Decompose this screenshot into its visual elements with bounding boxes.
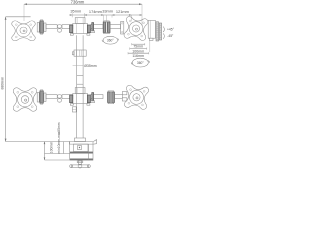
row1 left VESA plate	[12, 21, 36, 41]
svg-text:+45°: +45°	[167, 27, 175, 31]
svg-text:116mm: 116mm	[132, 54, 144, 58]
svg-text:736mm: 736mm	[71, 0, 85, 5]
dimension 75mm bracket	[132, 43, 145, 49]
desk clamp top plate	[69, 140, 96, 145]
row1 elbow joint block	[103, 21, 110, 34]
tilt angle arc down	[163, 33, 164, 38]
row1 tilt bracket upper bolt	[121, 23, 123, 25]
desk clamp lower jaw pad	[70, 159, 93, 161]
pole diameter label	[73, 64, 97, 68]
row1 arm assembly	[37, 18, 103, 36]
pole collar	[72, 50, 86, 56]
desk thickness dimension	[45, 122, 71, 153]
row2 tilt hinge tab lower	[122, 98, 127, 101]
svg-text:min10mm-max85mm: min10mm-max85mm	[57, 122, 61, 153]
svg-text:121mm: 121mm	[116, 9, 129, 14]
svg-text:360°: 360°	[137, 61, 145, 65]
pole base flange	[75, 138, 86, 142]
row2 elbow joint block	[108, 91, 115, 104]
VESA side profile hatched bar inner	[159, 23, 161, 40]
desk clamp c-bracket verticals	[70, 142, 93, 161]
overall height dimension 880mm	[0, 17, 69, 142]
desk clamp body	[74, 144, 89, 151]
row2 right rotated VESA plate	[124, 85, 149, 110]
row1 right rotated VESA plate	[124, 16, 149, 41]
desk clamp upper jaw pad	[70, 152, 93, 154]
extension line right head	[141, 4, 143, 26]
dimension 100mm bracket	[130, 47, 147, 53]
row2 tilt hinge tab upper	[122, 92, 127, 95]
extension line left VESA center	[23, 4, 25, 21]
row1 outer tube	[110, 25, 121, 29]
tilt angle arc up	[163, 27, 164, 33]
VESA side profile hatched bar outer	[156, 22, 159, 41]
bracket tab below row2 clamp	[72, 107, 76, 112]
svg-text:-45°: -45°	[167, 34, 174, 38]
svg-text:880mm: 880mm	[0, 77, 4, 90]
clamp screw shaft	[77, 160, 83, 164]
head side plate	[148, 20, 155, 52]
svg-text:33mm: 33mm	[102, 9, 113, 14]
360 degree swivel symbol top	[102, 36, 118, 44]
row1 tilt bracket bar	[121, 22, 124, 35]
row2 arm assembly	[37, 88, 103, 106]
row2 outer tube	[115, 95, 123, 99]
360 degree swivel symbol right	[131, 58, 149, 67]
pole	[77, 35, 83, 138]
svg-text:174mm: 174mm	[89, 9, 102, 14]
clamp screw T-handle	[70, 164, 91, 168]
svg-text:100mm: 100mm	[49, 142, 53, 154]
clamp height dimension 100mm	[44, 142, 70, 161]
dimension 116mm bracket	[128, 52, 149, 58]
svg-text:100mm: 100mm	[132, 49, 144, 53]
dimension 736mm	[24, 0, 142, 5]
svg-text:35mm: 35mm	[70, 9, 81, 14]
svg-text:360°: 360°	[107, 39, 115, 43]
svg-text:Ø35mm: Ø35mm	[84, 64, 97, 68]
row1 tilt bracket lower bolt	[121, 31, 123, 33]
row2 left VESA plate	[13, 88, 37, 112]
svg-text:75mm: 75mm	[133, 45, 143, 49]
secondary dimension line	[69, 13, 142, 22]
